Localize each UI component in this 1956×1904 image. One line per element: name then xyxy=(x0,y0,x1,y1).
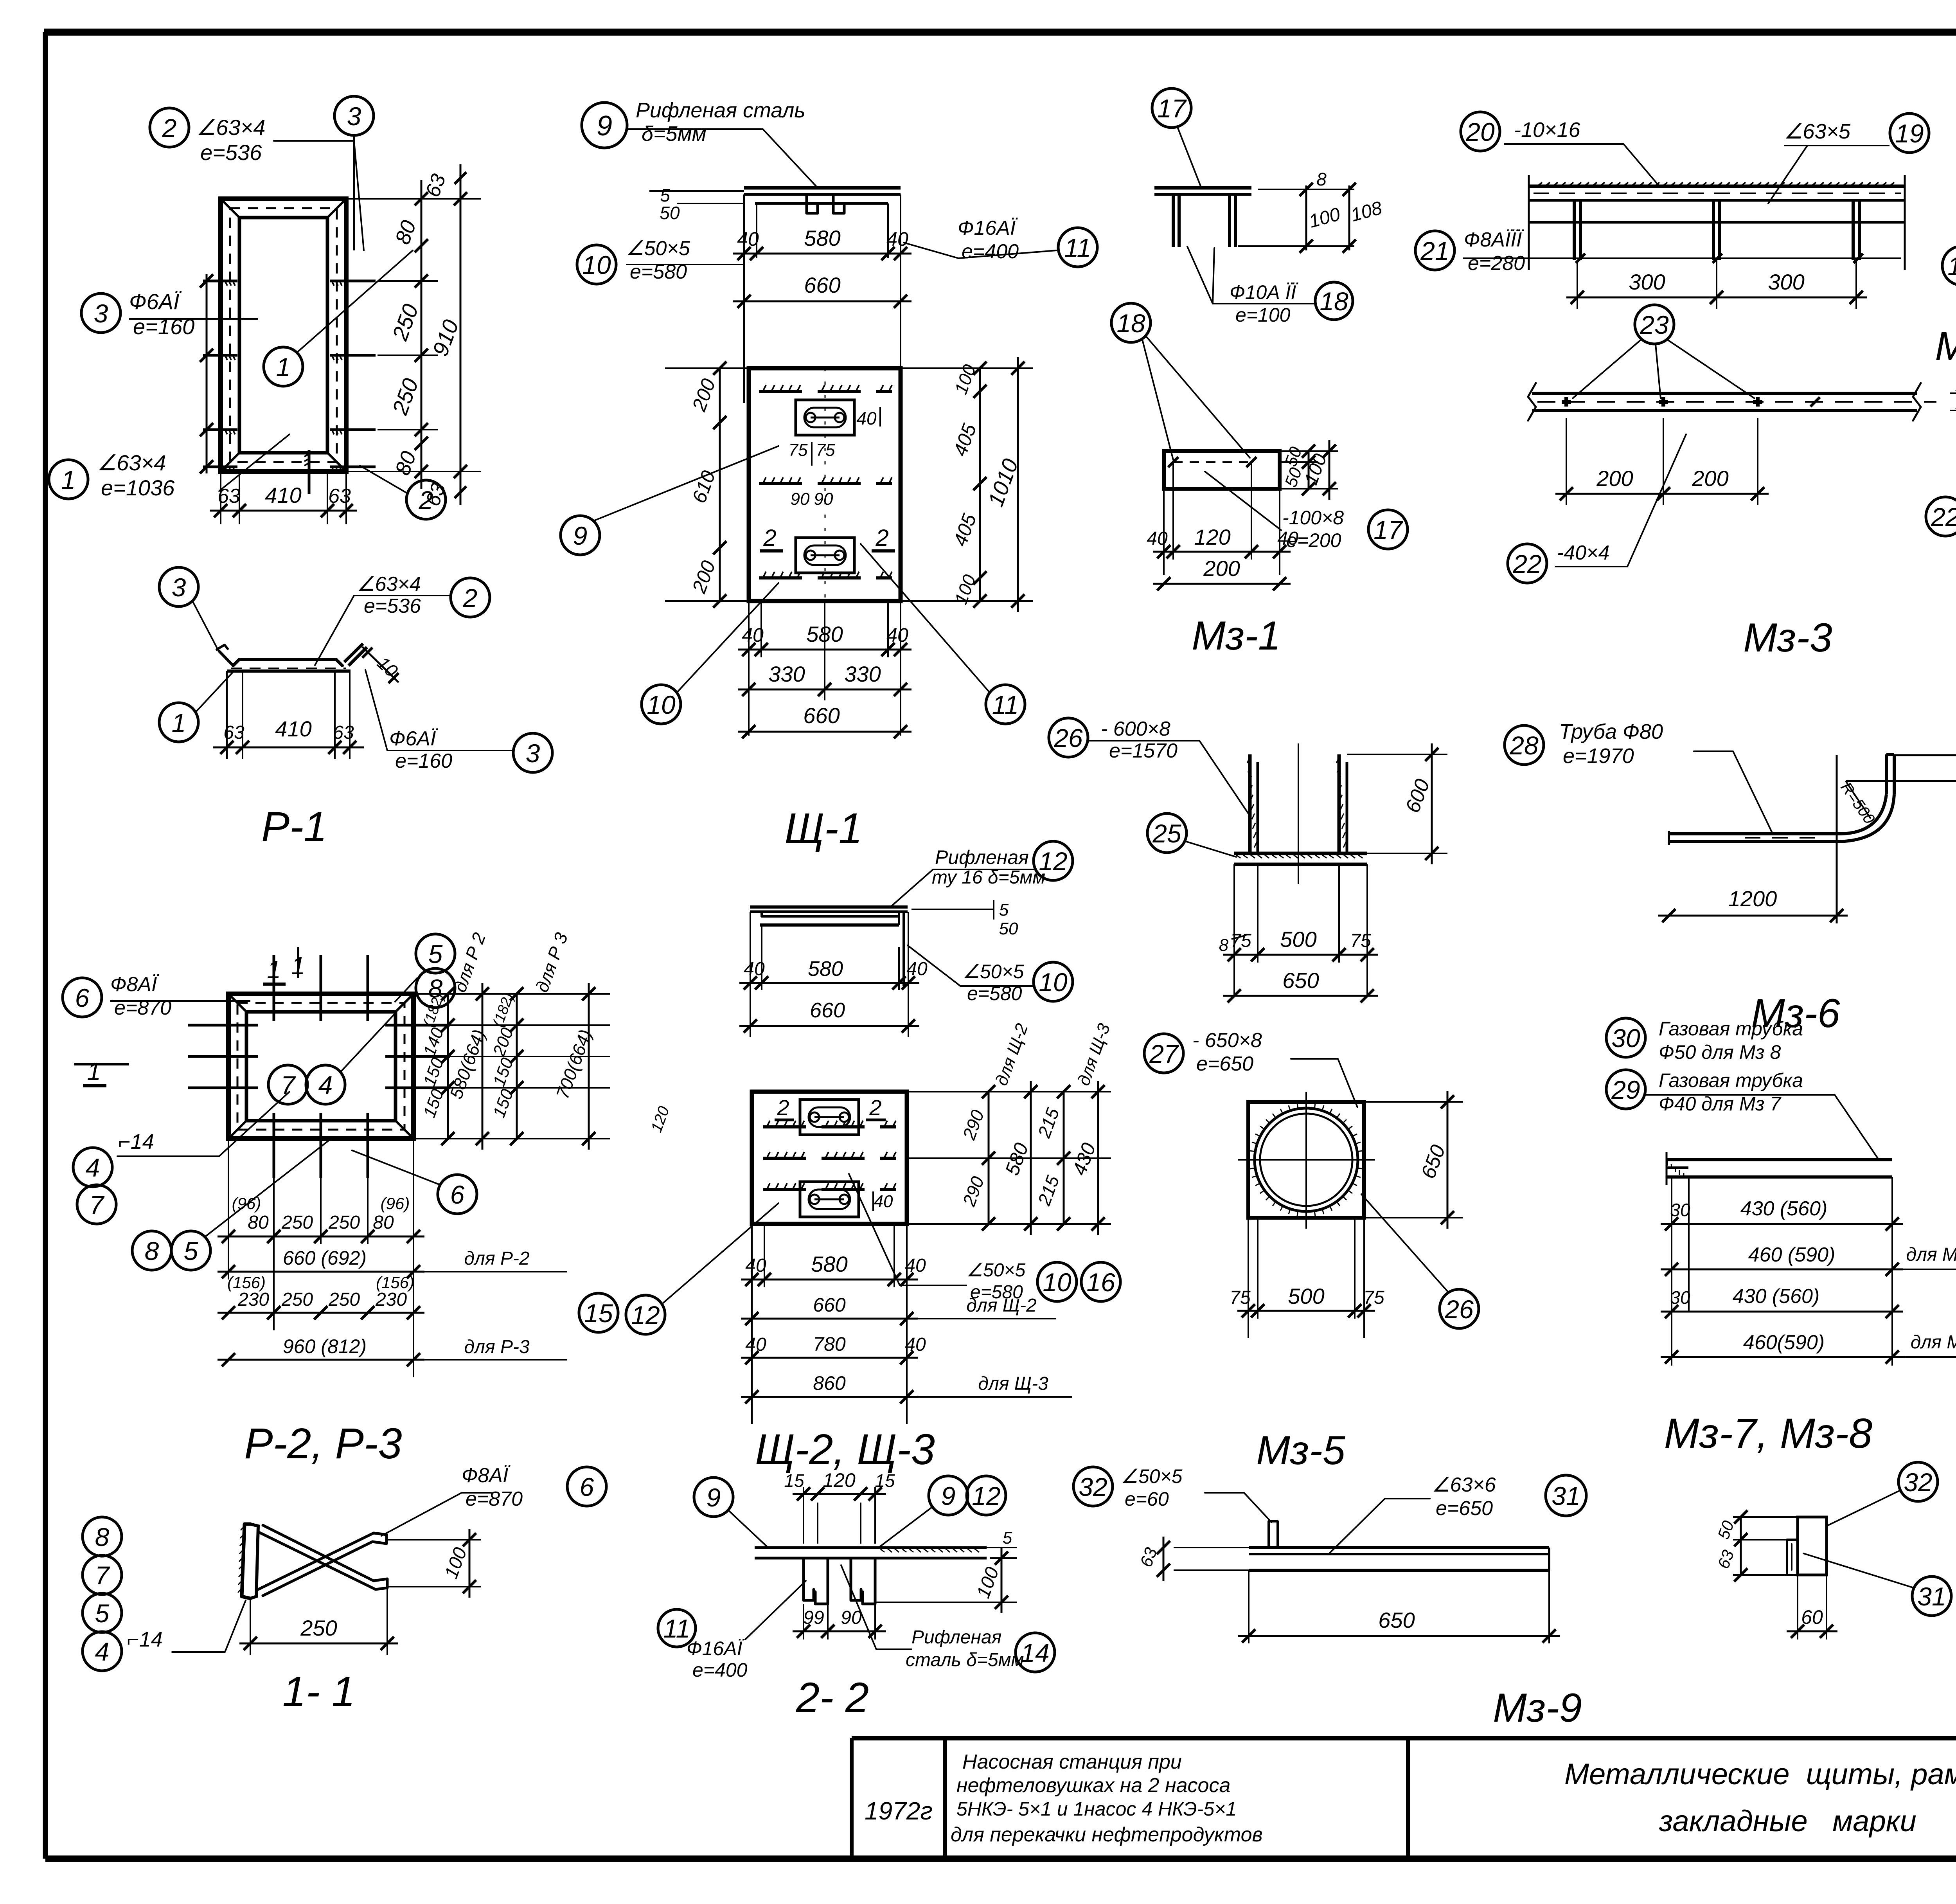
callout 29 xyxy=(1606,1069,1878,1158)
svg-text:40: 40 xyxy=(905,1255,926,1276)
svg-text:32: 32 xyxy=(1904,1468,1932,1497)
svg-text:Рифленая: Рифленая xyxy=(911,1627,1001,1648)
P-1 rebar bars xyxy=(203,281,376,494)
svg-text:1- 1: 1- 1 xyxy=(282,1668,355,1715)
svg-text:2: 2 xyxy=(419,486,433,515)
svg-text:300: 300 xyxy=(1629,270,1665,294)
callout 1 inside xyxy=(264,250,413,386)
svg-text:19: 19 xyxy=(1947,252,1956,281)
callout 9 big xyxy=(582,99,818,188)
svg-text:1: 1 xyxy=(172,708,186,737)
svg-text:40: 40 xyxy=(744,959,765,979)
figure Shch-1 section xyxy=(649,188,901,213)
svg-text:Р-2, Р-3: Р-2, Р-3 xyxy=(244,1420,402,1468)
M3-1 plate dims xyxy=(1147,440,1338,590)
caption 2-2 xyxy=(796,1674,869,1721)
svg-text:31: 31 xyxy=(1917,1582,1946,1611)
svg-text:40: 40 xyxy=(745,1255,766,1276)
svg-text:8: 8 xyxy=(95,1522,110,1551)
svg-text:50: 50 xyxy=(660,203,680,223)
M3-6 socket dims xyxy=(1219,743,1447,1002)
caption P-1 xyxy=(261,803,327,850)
svg-text:40: 40 xyxy=(737,228,759,250)
caption 1-1 xyxy=(282,1668,355,1715)
callout 4 left xyxy=(73,1092,289,1187)
figure M3-2 bench xyxy=(1529,175,1905,270)
callout 6 right xyxy=(352,1150,477,1214)
Shch-2-3 bottom dims xyxy=(741,1224,1072,1424)
svg-text:75: 75 xyxy=(816,441,835,460)
svg-text:Мз-1: Мз-1 xyxy=(1192,613,1280,659)
caption M3-9 xyxy=(1493,1685,1582,1731)
callout 10 bottom xyxy=(642,583,778,724)
caption M3-1 xyxy=(1192,613,1280,659)
svg-text:410: 410 xyxy=(265,483,301,507)
figure 1-1 brace xyxy=(238,1524,387,1598)
svg-text:для Р-3: для Р-3 xyxy=(464,1337,530,1357)
caption M3-3 xyxy=(1743,615,1832,660)
Shch-1 section dims xyxy=(733,194,911,403)
svg-text:для М 8: для М 8 xyxy=(1911,1332,1956,1353)
callout 6 1-1 xyxy=(381,1464,606,1536)
svg-text:2: 2 xyxy=(777,1095,789,1120)
svg-text:e=536: e=536 xyxy=(364,595,421,617)
svg-text:63: 63 xyxy=(328,485,351,507)
figure M3-6 socket xyxy=(1234,743,1367,884)
callout 30 xyxy=(1606,1018,1839,1063)
svg-text:1: 1 xyxy=(61,465,76,494)
svg-text:∠63×4: ∠63×4 xyxy=(97,450,166,475)
svg-text:25: 25 xyxy=(1152,819,1181,848)
svg-text:75: 75 xyxy=(1230,1287,1251,1308)
svg-text:9: 9 xyxy=(941,1481,956,1510)
svg-text:Ф16АЇ: Ф16АЇ xyxy=(958,217,1018,239)
figure M3-9 plate xyxy=(1249,1521,1549,1570)
figure M3-3 bar xyxy=(1528,383,1936,421)
svg-text:250: 250 xyxy=(281,1212,313,1233)
svg-text:4: 4 xyxy=(318,1071,333,1100)
svg-text:2- 2: 2- 2 xyxy=(796,1674,869,1721)
svg-text:5: 5 xyxy=(1003,1528,1012,1548)
callout 9 2-2 L xyxy=(694,1477,767,1546)
svg-text:2: 2 xyxy=(463,583,478,612)
svg-text:закладные марки: закладные марки xyxy=(1659,1805,1916,1838)
svg-text:Рифленая: Рифленая xyxy=(935,846,1029,868)
svg-text:Газовая трубка: Газовая трубка xyxy=(1659,1018,1803,1040)
callout 6 top xyxy=(63,973,250,1019)
svg-text:31: 31 xyxy=(1551,1481,1580,1510)
svg-text:40: 40 xyxy=(856,408,877,428)
svg-text:∠63×5: ∠63×5 xyxy=(1784,120,1851,143)
svg-text:19: 19 xyxy=(1895,119,1924,148)
callout 20 M3-2 xyxy=(1461,112,1659,185)
svg-text:Р-1: Р-1 xyxy=(261,803,327,850)
Shch-1 plan left dims xyxy=(665,362,749,608)
svg-text:11: 11 xyxy=(663,1614,690,1643)
svg-text:∠63×4: ∠63×4 xyxy=(196,115,265,140)
svg-text:нефтеловушках на 2 насоса: нефтеловушках на 2 насоса xyxy=(956,1774,1230,1797)
svg-text:Щ-2, Щ-3: Щ-2, Щ-3 xyxy=(755,1425,935,1474)
svg-text:40: 40 xyxy=(906,959,928,979)
svg-text:580: 580 xyxy=(811,1252,847,1276)
P-2 section marks xyxy=(74,947,366,1086)
svg-text:250: 250 xyxy=(300,1616,337,1640)
svg-text:9: 9 xyxy=(573,521,588,550)
svg-text:Металлические щиты, рамы и: Металлические щиты, рамы и xyxy=(1564,1758,1956,1791)
P-1 dim right chains xyxy=(346,164,481,509)
svg-text:5НКЭ- 5×1 и 1насос 4 НКЭ-5×1: 5НКЭ- 5×1 и 1насос 4 НКЭ-5×1 xyxy=(956,1798,1237,1820)
svg-text:15: 15 xyxy=(584,1299,613,1328)
svg-text:e=280: e=280 xyxy=(1468,252,1525,275)
callout 9 12 2-2 xyxy=(880,1476,1006,1546)
svg-text:29: 29 xyxy=(1611,1075,1640,1104)
callout 10 16 xyxy=(849,1174,1120,1303)
svg-text:∠50×5: ∠50×5 xyxy=(626,237,690,260)
border frame bottom xyxy=(45,1855,1956,1862)
caption M3-6 xyxy=(1751,991,1840,1036)
Shch-2-3 right dims xyxy=(907,1021,1114,1235)
svg-text:460(590): 460(590) xyxy=(1743,1331,1825,1354)
svg-text:40: 40 xyxy=(742,624,764,646)
svg-text:e=870: e=870 xyxy=(466,1488,523,1510)
svg-text:200: 200 xyxy=(1203,556,1240,581)
svg-text:сталь δ=5мм: сталь δ=5мм xyxy=(906,1650,1024,1670)
svg-text:63: 63 xyxy=(333,722,354,743)
callout col 8 xyxy=(83,1517,122,1556)
svg-text:e=1036: e=1036 xyxy=(101,475,175,500)
callout 18 plate xyxy=(1111,303,1250,460)
svg-text:16: 16 xyxy=(1086,1268,1115,1297)
svg-text:e=400: e=400 xyxy=(962,240,1019,263)
figure M3-7-8 section xyxy=(1787,1517,1827,1575)
svg-text:32: 32 xyxy=(1079,1472,1107,1501)
callout 28 xyxy=(1505,720,1772,833)
callout 5 8 top xyxy=(395,934,455,1008)
svg-text:40: 40 xyxy=(1147,528,1168,549)
svg-text:1200: 1200 xyxy=(1728,886,1777,911)
svg-text:63: 63 xyxy=(223,722,244,743)
svg-text:e=60: e=60 xyxy=(1125,1488,1169,1510)
callout 7 left xyxy=(77,1185,116,1224)
svg-text:7: 7 xyxy=(90,1190,105,1219)
svg-text:δ=5мм: δ=5мм xyxy=(642,122,707,146)
svg-text:(156): (156) xyxy=(376,1273,414,1292)
svg-text:3: 3 xyxy=(347,102,361,131)
Shch-1 section thickness dims xyxy=(660,185,743,223)
svg-text:e=536: e=536 xyxy=(200,140,262,165)
svg-text:Ф6АЇ: Ф6АЇ xyxy=(129,289,182,314)
M3-7-8 section dims xyxy=(1714,1510,1837,1639)
svg-text:30: 30 xyxy=(1670,1200,1690,1220)
svg-text:для Щ-3: для Щ-3 xyxy=(978,1373,1048,1394)
svg-text:Рифленая сталь: Рифленая сталь xyxy=(636,99,805,122)
callout 11 bottom xyxy=(861,544,1025,724)
svg-text:75: 75 xyxy=(789,441,808,460)
svg-text:120: 120 xyxy=(823,1469,856,1491)
svg-text:75: 75 xyxy=(1363,1287,1384,1308)
svg-text:Насосная станция при: Насосная станция при xyxy=(962,1751,1182,1773)
svg-text:26: 26 xyxy=(1054,723,1083,752)
svg-text:22: 22 xyxy=(1512,549,1541,578)
svg-text:1: 1 xyxy=(87,1057,101,1085)
figure M3-1 plate xyxy=(1164,451,1280,489)
svg-text:330: 330 xyxy=(844,662,881,686)
svg-text:960 (812): 960 (812) xyxy=(283,1335,367,1357)
svg-text:e=200: e=200 xyxy=(1286,529,1341,551)
svg-text:90: 90 xyxy=(814,489,833,509)
svg-text:9: 9 xyxy=(707,1483,721,1512)
svg-text:5: 5 xyxy=(428,939,443,968)
callout 15 12 xyxy=(579,1203,778,1334)
P-1 dims bottom xyxy=(210,472,357,524)
title year xyxy=(865,1797,933,1825)
svg-text:63: 63 xyxy=(218,485,240,507)
callout 19 tilt xyxy=(1942,216,1956,285)
svg-text:Ф50 для Мз 8: Ф50 для Мз 8 xyxy=(1659,1041,1781,1063)
callout 23 M3-3 xyxy=(1573,305,1755,398)
M3-9 dims xyxy=(1136,1537,1560,1643)
svg-text:500: 500 xyxy=(1288,1284,1324,1308)
svg-text:e=650: e=650 xyxy=(1436,1497,1493,1520)
callout 8 5 xyxy=(132,1141,329,1270)
P-1 dim left chain xyxy=(200,274,213,473)
callout 17 plate xyxy=(1205,472,1408,551)
svg-text:-40×4: -40×4 xyxy=(1557,542,1609,564)
svg-text:75: 75 xyxy=(1230,930,1251,951)
svg-text:780: 780 xyxy=(813,1333,846,1355)
svg-text:- 600×8: - 600×8 xyxy=(1101,718,1170,740)
caption Shch-1 xyxy=(784,804,862,853)
svg-text:3: 3 xyxy=(526,739,540,768)
callout 9 left xyxy=(561,446,778,555)
svg-text:12: 12 xyxy=(631,1301,660,1330)
svg-text:15: 15 xyxy=(784,1470,804,1491)
svg-text:e=100: e=100 xyxy=(1235,304,1291,326)
svg-text:4: 4 xyxy=(95,1637,110,1666)
svg-text:2: 2 xyxy=(869,1095,881,1120)
svg-text:Ф40 для Мз 7: Ф40 для Мз 7 xyxy=(1659,1093,1782,1115)
svg-text:3: 3 xyxy=(94,299,108,328)
svg-text:20: 20 xyxy=(1465,117,1495,146)
2-2 dims xyxy=(784,1469,1017,1639)
svg-text:250: 250 xyxy=(328,1289,360,1310)
callout 26b xyxy=(1361,1194,1479,1328)
callout 11 top xyxy=(904,217,1097,267)
svg-text:∠50×5: ∠50×5 xyxy=(966,1260,1025,1281)
svg-text:для М-7: для М-7 xyxy=(1906,1244,1956,1265)
callout col 4 xyxy=(83,1600,246,1671)
svg-text:22: 22 xyxy=(1931,502,1956,531)
P-2 bottom dim rows xyxy=(218,1139,567,1377)
svg-text:1972г: 1972г xyxy=(865,1797,933,1825)
svg-text:∠63×6: ∠63×6 xyxy=(1432,1474,1496,1496)
figure Shch-2-3 plan xyxy=(752,1092,907,1224)
svg-text:410: 410 xyxy=(275,716,311,741)
P-1 section dims xyxy=(213,647,402,759)
svg-text:Мз-5: Мз-5 xyxy=(1256,1428,1346,1473)
border frame left xyxy=(43,32,48,1859)
svg-text:300: 300 xyxy=(1768,270,1804,294)
svg-text:∠63×4: ∠63×4 xyxy=(357,573,421,596)
svg-text:650: 650 xyxy=(1378,1608,1415,1632)
svg-text:660: 660 xyxy=(803,703,840,728)
svg-text:e=160: e=160 xyxy=(133,314,194,339)
M3-2 dims xyxy=(1566,260,1867,309)
callout col 7 xyxy=(83,1555,122,1594)
callout 32b xyxy=(1827,1462,1938,1526)
svg-text:200: 200 xyxy=(1596,466,1633,491)
svg-text:9: 9 xyxy=(597,110,612,142)
svg-text:e=650: e=650 xyxy=(1196,1053,1253,1075)
svg-text:2: 2 xyxy=(763,525,776,551)
title description xyxy=(951,1751,1263,1846)
callout 25c xyxy=(1147,813,1236,857)
svg-text:50: 50 xyxy=(999,919,1018,938)
callout 18 bench xyxy=(1187,247,1353,326)
svg-text:e=160: e=160 xyxy=(395,750,452,772)
callout 2 bottom xyxy=(360,466,446,519)
title name xyxy=(1564,1758,1956,1838)
svg-text:99: 99 xyxy=(803,1607,824,1628)
svg-text:75: 75 xyxy=(1350,930,1371,951)
svg-text:200: 200 xyxy=(1692,466,1728,491)
figure Shch-2 section xyxy=(750,907,908,986)
svg-text:230: 230 xyxy=(237,1289,269,1310)
svg-text:для Р-2: для Р-2 xyxy=(464,1248,529,1269)
callout 10 top xyxy=(577,237,743,284)
svg-text:17: 17 xyxy=(1374,515,1403,544)
svg-text:80: 80 xyxy=(373,1212,394,1233)
svg-text:15: 15 xyxy=(875,1470,895,1491)
svg-text:Мз-9: Мз-9 xyxy=(1493,1685,1582,1731)
P-2 circles 7 4 xyxy=(268,1013,395,1104)
svg-text:8: 8 xyxy=(428,974,443,1003)
svg-text:28: 28 xyxy=(1509,731,1539,760)
svg-text:6: 6 xyxy=(450,1180,465,1209)
svg-text:Ф8АЇЇЇ: Ф8АЇЇЇ xyxy=(1464,229,1524,251)
svg-text:e=870: e=870 xyxy=(114,997,171,1019)
svg-text:17: 17 xyxy=(1157,94,1187,123)
callout 1 sec xyxy=(159,672,233,742)
svg-text:Мз-3: Мз-3 xyxy=(1743,615,1832,660)
svg-text:60: 60 xyxy=(1801,1606,1823,1628)
callout 3 top xyxy=(334,96,374,250)
svg-text:10: 10 xyxy=(1039,968,1068,997)
svg-text:1: 1 xyxy=(276,353,291,382)
figure P-2 P-3 frame xyxy=(228,994,413,1139)
figure P-1 plan frame xyxy=(221,199,346,472)
svg-text:650: 650 xyxy=(1282,968,1319,993)
svg-text:500: 500 xyxy=(1280,927,1316,952)
Shch-1 plan bottom dims xyxy=(738,601,911,738)
callout 2 top xyxy=(150,108,364,250)
callout 3 left xyxy=(81,289,258,339)
callout 32 M3-9 xyxy=(1073,1465,1271,1522)
svg-text:3: 3 xyxy=(172,573,186,602)
callout 22 secA xyxy=(1926,442,1956,536)
callout 21 M3-2 xyxy=(1415,229,1901,275)
caption Shch-2-3 xyxy=(755,1425,935,1474)
svg-text:11: 11 xyxy=(1064,233,1091,262)
callout 31b xyxy=(1803,1553,1951,1616)
svg-text:8: 8 xyxy=(145,1236,159,1265)
svg-text:Щ-1: Щ-1 xyxy=(784,804,862,853)
svg-text:40: 40 xyxy=(905,1334,926,1355)
svg-text:250: 250 xyxy=(328,1212,360,1233)
svg-text:e=580: e=580 xyxy=(970,1282,1023,1303)
svg-text:Ф16АЇ: Ф16АЇ xyxy=(687,1638,745,1659)
svg-text:7: 7 xyxy=(281,1071,296,1100)
figure M3-6 pipe xyxy=(1669,754,1894,923)
svg-text:для перекачки нефтепродуктов: для перекачки нефтепродуктов xyxy=(951,1823,1263,1846)
svg-text:460 (590): 460 (590) xyxy=(1748,1244,1836,1266)
svg-text:∠50×5: ∠50×5 xyxy=(962,961,1024,983)
M3-1 bench dims xyxy=(1238,169,1384,253)
svg-text:7: 7 xyxy=(95,1561,110,1590)
M3-5 dims xyxy=(1230,1091,1463,1338)
svg-text:660: 660 xyxy=(810,999,845,1022)
Shch-1 plan right dims xyxy=(901,357,1033,612)
svg-text:- 650×8: - 650×8 xyxy=(1192,1029,1262,1052)
svg-text:(156): (156) xyxy=(227,1273,266,1292)
svg-text:660: 660 xyxy=(804,273,840,297)
svg-text:10: 10 xyxy=(1043,1268,1071,1297)
svg-text:23: 23 xyxy=(1640,310,1669,339)
svg-text:e=1570: e=1570 xyxy=(1109,740,1178,762)
svg-text:e=1970: e=1970 xyxy=(1563,744,1634,768)
svg-text:Ф6АЇ: Ф6АЇ xyxy=(389,727,438,750)
caption M3-2 xyxy=(1935,324,1956,369)
callout 12 Shch-2 sec xyxy=(890,841,1073,907)
svg-text:⌐14: ⌐14 xyxy=(118,1130,154,1154)
callout 22 label xyxy=(1508,434,1686,583)
P-2 rebar bars xyxy=(188,955,450,1178)
svg-text:40: 40 xyxy=(886,624,908,646)
svg-text:40: 40 xyxy=(874,1192,893,1211)
svg-text:Ф8АЇ: Ф8АЇ xyxy=(462,1464,511,1487)
svg-text:90: 90 xyxy=(841,1607,862,1628)
svg-text:(96): (96) xyxy=(381,1194,410,1213)
svg-text:860: 860 xyxy=(813,1372,846,1394)
svg-text:430 (560): 430 (560) xyxy=(1740,1197,1828,1220)
callout 27 xyxy=(1144,1029,1357,1107)
caption P-2 P-3 xyxy=(244,1420,402,1468)
svg-text:580: 580 xyxy=(808,957,843,981)
svg-text:250: 250 xyxy=(281,1289,313,1310)
callout 17 bench xyxy=(1152,88,1201,187)
callout col 5 xyxy=(83,1593,122,1632)
svg-text:5: 5 xyxy=(999,900,1009,920)
callout 19 M3-2 xyxy=(1768,113,1929,203)
figure Shch-1 plan xyxy=(749,368,901,601)
svg-text:330: 330 xyxy=(768,662,805,686)
M3-6 pipe dims xyxy=(1658,749,1956,922)
svg-text:-10×16: -10×16 xyxy=(1514,118,1581,142)
svg-text:230: 230 xyxy=(375,1289,407,1310)
figure 2-2 section xyxy=(755,1548,987,1604)
svg-text:∠50×5: ∠50×5 xyxy=(1121,1465,1183,1487)
svg-text:660: 660 xyxy=(813,1294,846,1316)
callout 2 sec xyxy=(315,573,490,665)
callout 3 sec xyxy=(159,567,219,651)
svg-text:660 (692): 660 (692) xyxy=(283,1247,367,1269)
svg-text:5: 5 xyxy=(95,1599,110,1628)
M3-3 dims xyxy=(1555,376,1956,505)
svg-text:10: 10 xyxy=(582,250,611,279)
svg-text:Ф8АЇ: Ф8АЇ xyxy=(110,973,159,996)
svg-text:8: 8 xyxy=(1219,936,1229,955)
svg-text:-100×8: -100×8 xyxy=(1282,507,1344,529)
